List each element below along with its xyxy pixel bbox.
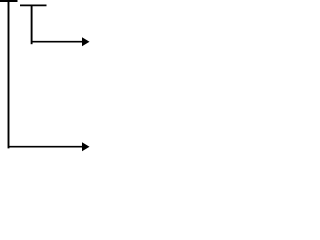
wire: arrow A2 shaft — [9, 146, 83, 148]
wire: top horizontal segment H1 — [0, 0, 18, 2]
wire: left vertical trunk V1 — [8, 0, 10, 148]
wire: upper horizontal segment H2 — [20, 4, 47, 6]
wire: branch vertical V2 — [31, 5, 33, 45]
arrowhead A2 — [82, 142, 90, 151]
arrowhead A1 — [82, 37, 90, 46]
wire: arrow A1 shaft — [32, 41, 83, 43]
